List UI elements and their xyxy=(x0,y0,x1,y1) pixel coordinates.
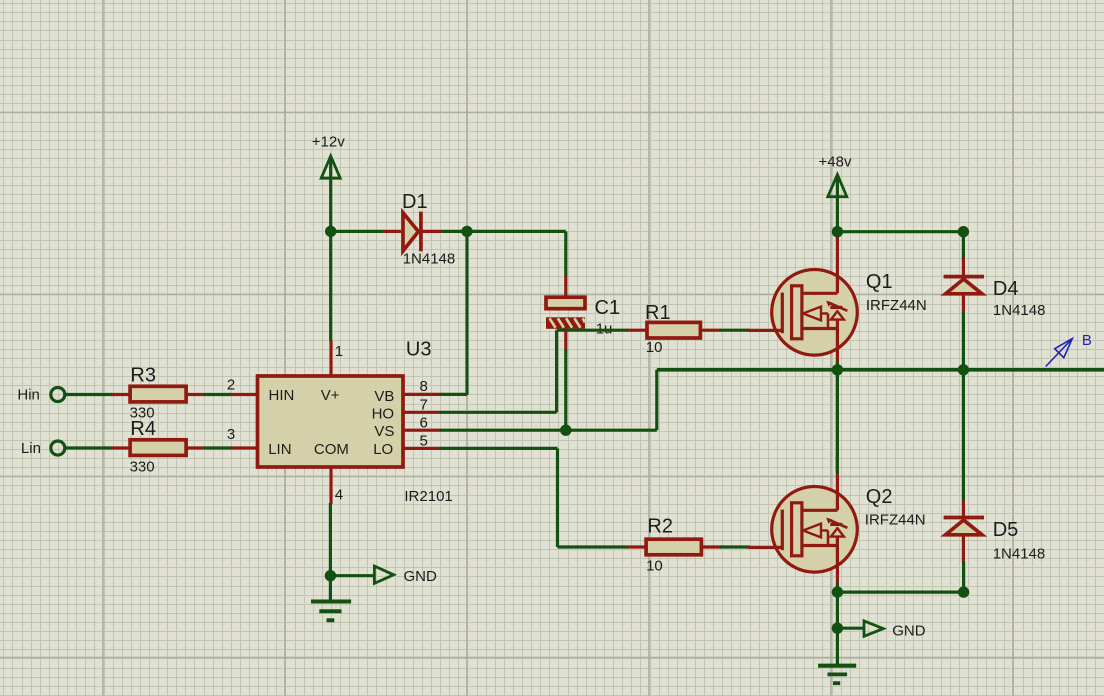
power symbol +12v xyxy=(321,156,340,231)
svg-text:+12v: +12v xyxy=(312,134,345,151)
svg-text:VB: VB xyxy=(374,388,394,405)
resistor R4 xyxy=(112,440,232,456)
svg-text:5: 5 xyxy=(420,432,428,449)
svg-text:R3: R3 xyxy=(130,365,156,387)
svg-text:+48v: +48v xyxy=(819,153,852,170)
svg-text:Hin: Hin xyxy=(17,387,40,404)
diode D4 bottom lead xyxy=(962,295,965,313)
svg-text:HIN: HIN xyxy=(269,387,295,404)
GND terminal arrow (right) xyxy=(864,621,883,636)
wire C1 bottom to VS junction xyxy=(564,350,567,430)
svg-text:D4: D4 xyxy=(993,278,1019,300)
wire VB stub to riser xyxy=(440,393,468,396)
svg-text:1: 1 xyxy=(335,343,343,360)
svg-text:8: 8 xyxy=(420,378,428,395)
wire HO to R1 (up riser) xyxy=(440,330,629,412)
capacitor C1 top lead xyxy=(564,276,567,298)
diode D5 bottom lead xyxy=(962,536,965,563)
U3 pin 7 stub (HO) xyxy=(403,411,441,414)
svg-text:IR2101: IR2101 xyxy=(404,488,452,505)
wire D1 row to C1 top corner xyxy=(467,231,566,277)
resistor R3 xyxy=(112,386,232,402)
svg-text:R1: R1 xyxy=(645,302,671,324)
junction J1 xyxy=(325,226,336,237)
svg-text:1N4148: 1N4148 xyxy=(403,251,456,268)
diode D1 cathode lead xyxy=(421,230,441,233)
diode D4 cathode bar xyxy=(944,275,984,279)
svg-text:6: 6 xyxy=(420,414,428,431)
wire Q1 source to B line xyxy=(836,361,839,370)
resistor R2 xyxy=(628,539,721,555)
svg-text:C1: C1 xyxy=(595,297,621,319)
wire +48v rail to D4 xyxy=(837,230,963,233)
svg-text:10: 10 xyxy=(646,339,663,356)
wire VB riser xyxy=(465,231,468,395)
svg-text:V+: V+ xyxy=(321,387,340,404)
svg-text:Q1: Q1 xyxy=(866,271,893,293)
svg-text:R2: R2 xyxy=(647,516,673,538)
wire D5 bottom to Q2 source row xyxy=(837,562,963,593)
earth ground symbol (left) xyxy=(311,602,351,621)
capacitor C1 top plate xyxy=(546,297,585,309)
junction J4 (+48v / Q1 drain) xyxy=(832,226,843,237)
svg-text:3: 3 xyxy=(227,426,235,443)
wire R1 to Q1 gate xyxy=(720,329,750,332)
capacitor C1 bottom plate (hatched) xyxy=(546,317,585,329)
node B label arrow xyxy=(1046,339,1073,367)
wire D1 cathode to VB riser junction xyxy=(441,230,467,233)
svg-text:B: B xyxy=(1082,332,1092,349)
svg-text:R4: R4 xyxy=(130,418,156,440)
diode D4 top lead xyxy=(962,258,965,275)
U3 IC body (IR2101) xyxy=(258,376,404,467)
svg-text:COM: COM xyxy=(314,441,349,458)
svg-text:4: 4 xyxy=(335,487,343,504)
wire D5 top lead from B line xyxy=(962,370,965,502)
capacitor C1 bottom lead xyxy=(564,329,567,351)
diode D5 top lead xyxy=(962,501,965,517)
svg-text:VS: VS xyxy=(374,423,394,440)
wire to GND terminal (right) xyxy=(837,627,864,630)
wire J9 down to earth xyxy=(836,628,839,664)
terminal Lin xyxy=(51,441,113,455)
junction J10 (corner D5 bottom) xyxy=(958,586,969,597)
diode D1 cathode bar xyxy=(419,212,423,252)
junction J7 (D4 / D5 / B) xyxy=(958,364,969,375)
svg-text:2: 2 xyxy=(227,377,235,394)
svg-text:10: 10 xyxy=(646,558,663,575)
U3 pin 5 stub (LO) xyxy=(403,447,441,450)
node B line xyxy=(657,368,1104,372)
svg-text:1N4148: 1N4148 xyxy=(993,546,1046,563)
junction J9 (GND branch) xyxy=(832,623,843,634)
svg-text:1N4148: 1N4148 xyxy=(993,302,1046,319)
svg-text:LO: LO xyxy=(373,441,393,458)
svg-text:HO: HO xyxy=(372,405,395,422)
wire to GND terminal (left) xyxy=(330,574,374,577)
wire Q2 drain green overlay xyxy=(836,370,839,474)
svg-text:Lin: Lin xyxy=(21,440,41,457)
diode D1 body xyxy=(403,213,418,251)
pin 1 stub of U3 xyxy=(329,341,332,378)
earth ground symbol (right) xyxy=(818,666,856,684)
svg-text:IRFZ44N: IRFZ44N xyxy=(866,297,927,314)
svg-text:D1: D1 xyxy=(402,191,428,213)
svg-text:GND: GND xyxy=(404,568,438,585)
wire VS row to B riser xyxy=(440,370,657,430)
svg-text:IRFZ44N: IRFZ44N xyxy=(865,511,926,528)
wire COM to ground xyxy=(329,503,332,600)
wire Q1 drain xyxy=(836,232,839,239)
junction J8 (Q2 source / D5) xyxy=(832,586,843,597)
svg-text:330: 330 xyxy=(130,458,155,475)
svg-text:Q2: Q2 xyxy=(866,486,893,508)
U3 pin 6 stub (VS) xyxy=(403,429,441,432)
terminal Hin xyxy=(51,388,113,402)
svg-text:U3: U3 xyxy=(406,339,432,361)
diode D5 cathode bar xyxy=(944,516,984,520)
svg-text:LIN: LIN xyxy=(268,441,291,458)
junction J6 (Q1 source / B) xyxy=(832,364,843,375)
wire down to D4 xyxy=(962,232,965,259)
diode D1 anode lead xyxy=(383,230,401,233)
junction J5 (corner D4) xyxy=(958,226,969,237)
junction J11 (COM/GND) xyxy=(325,570,336,581)
wire R2 to Q2 gate xyxy=(720,545,750,548)
junction J2 xyxy=(461,226,472,237)
svg-text:D5: D5 xyxy=(993,519,1019,541)
wire V+ rail vertical to U3 pin 1 xyxy=(329,231,332,341)
transistor Q2 (IRFZ44N) xyxy=(748,455,857,583)
svg-text:7: 7 xyxy=(420,396,428,413)
wire D4 to B line xyxy=(962,312,965,370)
transistor Q1 (IRFZ44N) xyxy=(748,238,857,366)
svg-text:GND: GND xyxy=(892,622,926,639)
wire Q1 source down to Q2 drain xyxy=(836,370,839,474)
wire +12v rail to D1 anode xyxy=(331,230,384,233)
U3 pin 3 stub xyxy=(230,446,257,449)
power symbol +48v xyxy=(828,175,847,232)
wire LO to R2 xyxy=(440,448,629,547)
U3 pin 8 stub (VB) xyxy=(403,393,441,396)
resistor R1 xyxy=(627,322,721,338)
junction J3 (VS / C1) xyxy=(560,425,571,436)
U3 pin 2 stub xyxy=(230,393,257,396)
wire Q2 source down xyxy=(836,583,839,628)
diode D5 body xyxy=(946,520,983,535)
diode D4 body xyxy=(946,279,983,294)
U3 pin 4 stub (COM) xyxy=(329,467,332,504)
GND terminal arrow (left) xyxy=(374,566,393,583)
